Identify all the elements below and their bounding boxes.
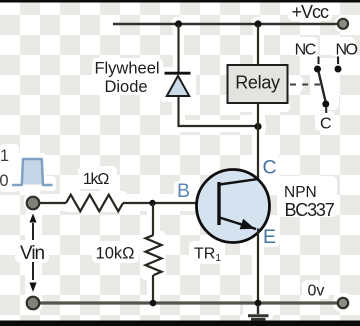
transistor TR1 body circle	[197, 170, 270, 243]
switch common dot	[322, 101, 329, 108]
pulse waveform fill	[22, 159, 43, 185]
svg-text:NC: NC	[295, 42, 316, 59]
wire: diode bottom to collector bus	[179, 97, 259, 127]
relay RLY1 box	[228, 65, 288, 103]
wire: R2 bottom lead	[152, 275, 154, 303]
resistor R2 10k zigzag	[146, 235, 162, 275]
wire: relay bottom to collector	[257, 103, 259, 180]
Vin arrow down head	[29, 283, 36, 293]
transistor TR1 collector stroke	[220, 179, 258, 185]
transistor TR1 emitter stroke	[220, 218, 257, 230]
junction dot base/R2	[149, 200, 155, 206]
wire: diode anode drop	[177, 25, 179, 73]
switch NO contact dot	[335, 66, 342, 73]
node: +Vcc terminal circle	[338, 19, 348, 29]
junction dot at diode top	[175, 20, 182, 27]
switch common stub	[325, 108, 327, 114]
svg-text:Vin: Vin	[20, 243, 45, 264]
svg-text:10kΩ: 10kΩ	[96, 245, 135, 263]
wire: input node to R1	[40, 202, 66, 204]
ground symbol bar 2	[251, 318, 266, 321]
transistor TR1 emitter arrowhead	[240, 219, 255, 230]
wire: 0v bottom rail	[40, 301, 337, 304]
svg-text:+Vcc: +Vcc	[292, 2, 330, 22]
ground node circle left	[27, 297, 40, 310]
svg-text:E: E	[263, 226, 276, 248]
svg-text:B: B	[177, 180, 190, 202]
svg-text:0: 0	[0, 172, 9, 190]
svg-text:NO: NO	[336, 42, 358, 59]
dashed mechanical link relay to switch	[290, 84, 320, 86]
pulse waveform trace	[12, 159, 53, 185]
wire: emitter down to 0v rail	[257, 229, 259, 304]
wire: R2 top lead	[152, 204, 154, 235]
svg-text:1kΩ: 1kΩ	[83, 171, 109, 188]
junction dot R2/rail	[150, 300, 157, 307]
Vin arrow lower shaft	[32, 262, 34, 280]
svg-text:Flywheel: Flywheel	[94, 60, 159, 78]
ground node circle right	[338, 298, 348, 308]
ground symbol bar 1	[248, 314, 269, 317]
Vin arrow upper shaft	[32, 223, 34, 240]
diode D1 cathode bar	[165, 72, 191, 75]
svg-text:Diode: Diode	[104, 78, 147, 96]
switch NO lead	[337, 57, 339, 65]
switch arm	[319, 72, 326, 102]
diode D1 triangle	[167, 76, 189, 96]
Vin arrow up head	[29, 214, 36, 223]
svg-text:0v: 0v	[308, 283, 325, 300]
switch NC contact dot	[314, 66, 321, 73]
transistor TR1 base bar	[217, 182, 220, 225]
junction dot emitter/rail	[255, 300, 262, 307]
svg-text:NPN: NPN	[284, 184, 317, 201]
ground symbol stub	[257, 305, 259, 314]
input node circle	[27, 197, 40, 210]
wire: +Vcc top rail	[113, 23, 337, 25]
svg-text:C: C	[320, 116, 332, 133]
svg-text:BC337: BC337	[285, 200, 335, 220]
junction dot at relay top	[254, 20, 261, 27]
black top border strip	[0, 0, 360, 3]
svg-text:Relay: Relay	[235, 73, 280, 93]
black bottom border strip	[0, 321, 360, 326]
svg-text:1: 1	[0, 147, 9, 165]
svg-text:C: C	[262, 157, 276, 179]
wire: relay top lead	[257, 25, 259, 65]
resistor R1 1k zigzag	[66, 195, 123, 212]
junction dot diode/collector	[254, 123, 261, 130]
switch NC lead	[318, 57, 320, 65]
wire: base from resistors to transistor	[123, 202, 218, 204]
